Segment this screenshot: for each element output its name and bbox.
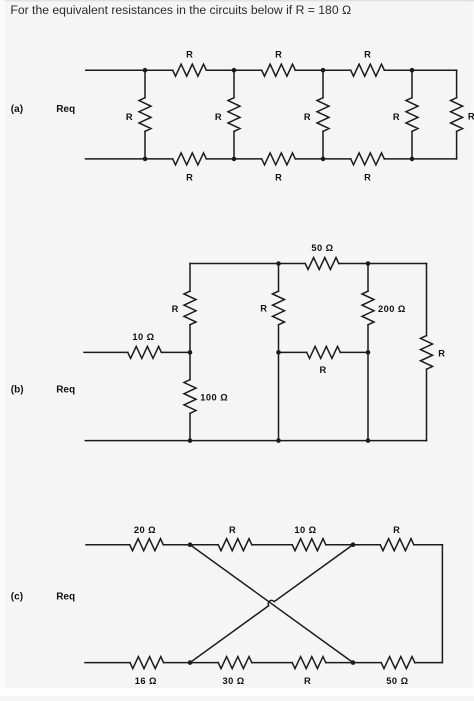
resistor R (a) vertical x=323.0: [304, 98, 329, 132]
resistor R (a) rightmost: [451, 98, 474, 132]
node (b) at 278.5,352.4: [276, 350, 281, 355]
node (b) at 368.0,440.6: [366, 438, 371, 443]
svg-text:R: R: [304, 112, 311, 122]
resistor R (c) bottom middle: [292, 657, 326, 687]
node (b) at 278.5,263.5: [276, 261, 281, 266]
node (b) at 368.0,263.5: [366, 261, 371, 266]
svg-text:R: R: [438, 348, 445, 358]
resistor R (b) middle branch: [260, 291, 284, 325]
svg-text:30 Ω: 30 Ω: [223, 676, 245, 686]
wire (a) vertical branch x=412.0: [411, 70, 413, 159]
node (b) input: [188, 350, 193, 355]
resistor R (a) vertical x=412.0: [393, 98, 418, 132]
node (c) top-right: [351, 542, 356, 547]
svg-text:20 Ω: 20 Ω: [134, 525, 156, 535]
resistor 100Ω (b): [184, 380, 228, 414]
node (a) bottom x=145.0: [143, 157, 148, 162]
wire (b) top rail: [190, 263, 427, 265]
wire (b) input lead: [84, 351, 190, 353]
node (a) bottom x=412.0: [410, 157, 415, 162]
resistor R (a) top at x=278.5: [262, 50, 296, 77]
node (a) top x=323.0: [321, 68, 326, 73]
svg-text:For the equivalent resistances: For the equivalent resistances in the ci…: [10, 3, 351, 17]
resistor R (a) vertical x=145.0: [126, 98, 151, 132]
node (a) bottom x=323.0: [321, 157, 326, 162]
resistor R (b) left branch: [172, 291, 196, 325]
svg-text:R: R: [172, 304, 179, 314]
node (a) top x=234.0: [232, 68, 237, 73]
svg-text:10 Ω: 10 Ω: [132, 332, 154, 342]
svg-text:(a): (a): [11, 104, 23, 115]
svg-text:R: R: [126, 112, 133, 122]
node (c) top-left: [188, 542, 193, 547]
svg-text:R: R: [320, 365, 327, 375]
svg-text:R: R: [364, 50, 371, 60]
resistor 10Ω (b): [128, 332, 162, 359]
resistor R (a) bottom at x=278.5: [262, 153, 296, 183]
svg-text:100 Ω: 100 Ω: [200, 393, 228, 403]
svg-text:Req: Req: [56, 591, 75, 602]
wire (c) diagonal top-left to bottom-right: [190, 545, 353, 663]
svg-text:200 Ω: 200 Ω: [378, 304, 406, 314]
wire (a) top rail: [86, 69, 457, 71]
svg-text:(b): (b): [11, 385, 24, 396]
node (b) at 278.5,440.6: [276, 438, 281, 443]
node (a) top x=145.0: [143, 68, 148, 73]
wire (a) vertical branch x=145.0: [144, 70, 146, 159]
svg-text:R: R: [275, 173, 282, 183]
svg-text:R: R: [304, 676, 311, 686]
svg-text:50 Ω: 50 Ω: [386, 676, 408, 686]
wire (b) bottom rail: [85, 440, 426, 442]
svg-text:(c): (c): [11, 591, 23, 602]
resistor R (a) top at x=189.5: [173, 50, 207, 77]
wire (c) bottom rail: [85, 662, 442, 664]
svg-text:R: R: [275, 50, 282, 60]
svg-text:Req: Req: [56, 385, 75, 396]
resistor 200Ω (b): [362, 291, 406, 325]
svg-text:R: R: [186, 173, 193, 183]
resistor R (b) rightmost: [421, 336, 446, 370]
resistor R (a) top at x=367.5: [351, 50, 385, 77]
wire (b) middle branch: [278, 264, 280, 441]
svg-text:R: R: [186, 50, 193, 60]
node (b) at 190.0,440.6: [188, 438, 193, 443]
node (b) at 368.0,352.4: [366, 350, 371, 355]
resistor 20Ω (c): [130, 525, 164, 551]
wire (a) vertical branch x=234.0: [233, 70, 235, 159]
wire (b) middle horizontal: [279, 351, 369, 353]
resistor R (b) middle horizontal: [307, 346, 341, 375]
svg-text:R: R: [393, 112, 400, 122]
wire (b) left branch: [189, 264, 191, 441]
resistor R (a) bottom at x=367.5: [351, 153, 385, 183]
node (a) bottom x=234.0: [232, 157, 237, 162]
wire (c) diagonal bottom-left to top-right with hop: [190, 545, 353, 663]
svg-text:16 Ω: 16 Ω: [135, 676, 157, 686]
wire (c) top rail: [86, 544, 442, 546]
resistor R (a) bottom at x=189.5: [173, 153, 207, 183]
node (c) bottom-left: [188, 660, 193, 665]
node (c) bottom-right: [351, 660, 356, 665]
resistor R (c) top middle: [218, 525, 252, 551]
svg-text:R: R: [393, 525, 400, 535]
svg-text:R: R: [364, 173, 371, 183]
wire (a) right edge: [456, 70, 458, 159]
resistor R (c) top right: [380, 525, 414, 551]
svg-text:R: R: [468, 112, 474, 122]
svg-text:10 Ω: 10 Ω: [294, 525, 316, 535]
wire (a) vertical branch x=323.0: [322, 70, 324, 159]
wire (c) right edge: [441, 545, 443, 663]
node (a) top x=412.0: [410, 68, 415, 73]
svg-text:R: R: [229, 525, 236, 535]
resistor R (a) vertical x=234.0: [215, 98, 240, 132]
wire (b) 200Ω branch: [367, 264, 369, 441]
resistor 16Ω (c): [130, 657, 164, 687]
resistor 50Ω (c): [381, 657, 415, 687]
svg-text:R: R: [260, 304, 267, 314]
resistor 30Ω (c): [218, 657, 252, 687]
resistor 10Ω (c): [292, 525, 326, 551]
resistor 50Ω (b): [305, 243, 339, 270]
svg-text:Req: Req: [56, 104, 75, 115]
wire (a) bottom rail: [86, 158, 457, 160]
svg-text:50 Ω: 50 Ω: [311, 243, 333, 253]
svg-text:R: R: [215, 112, 222, 122]
wire (b) right edge: [426, 264, 428, 441]
